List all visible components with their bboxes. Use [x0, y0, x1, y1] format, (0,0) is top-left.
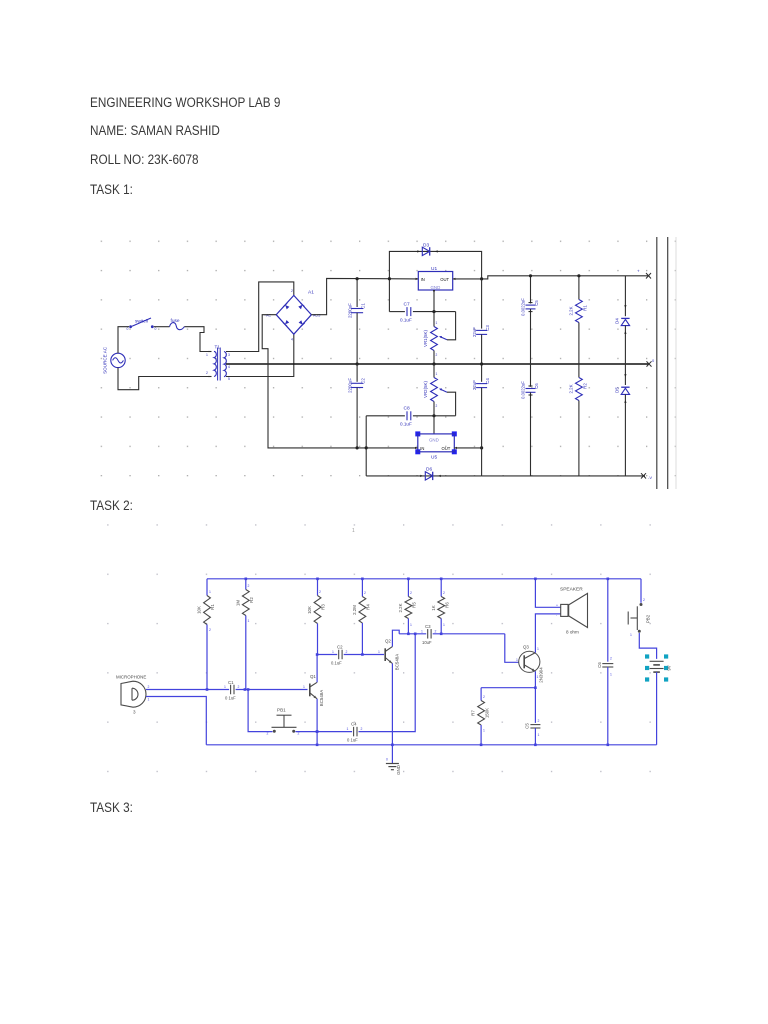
wire U1 OUT to +V rail — [453, 276, 649, 279]
bridge rectifier A1 — [276, 295, 311, 334]
svg-text:0 1uF: 0 1uF — [225, 696, 236, 701]
svg-text:2: 2 — [610, 657, 612, 661]
svg-text:2200uF: 2200uF — [348, 378, 353, 393]
wire bridge plus to U1 IN — [311, 278, 418, 314]
svg-text:150K: 150K — [485, 708, 490, 718]
microphone MIC1 — [121, 681, 146, 707]
svg-text:0: 0 — [386, 758, 388, 762]
svg-text:switch: switch — [135, 319, 149, 325]
wire battery to bottom rail — [656, 672, 658, 745]
svg-text:8 ohm: 8 ohm — [566, 630, 579, 635]
terminal 0V — [647, 361, 652, 366]
svg-text:2: 2 — [267, 732, 269, 736]
svg-text:GND: GND — [431, 285, 441, 290]
svg-text:R4: R4 — [366, 604, 371, 610]
wire mic top to C1 and Q1 base — [146, 689, 229, 691]
svg-text:2: 2 — [538, 719, 540, 723]
svg-text:22uF: 22uF — [472, 380, 477, 390]
svg-text:+: + — [556, 604, 558, 608]
bottom rail — [206, 744, 656, 746]
wire Q3 emitter with C5 — [534, 671, 536, 723]
svg-text:1: 1 — [421, 630, 423, 634]
wire mic bottom to ground rail — [146, 697, 206, 745]
svg-text:10uF: 10uF — [422, 640, 432, 645]
svg-text:1: 1 — [206, 353, 208, 357]
svg-text:1: 1 — [516, 658, 518, 662]
svg-text:2: 2 — [248, 584, 250, 588]
svg-text:R3: R3 — [321, 604, 326, 610]
column C3 C4 — [481, 279, 483, 329]
resistor R1 2.2K — [578, 276, 580, 300]
svg-text:D5: D5 — [615, 387, 620, 393]
wire Q2 collector jog to node — [392, 630, 399, 646]
svg-text:C6: C6 — [597, 662, 602, 668]
diode D3 branch over U1 — [389, 251, 481, 311]
capacitor C8 0.1uF branch — [366, 415, 405, 417]
diode D5 column — [624, 364, 626, 385]
wire fuse to transformer primary — [185, 327, 209, 352]
svg-text:fuse: fuse — [171, 318, 180, 324]
grid dots circuit 1 (decorative) — [96, 229, 692, 491]
svg-text:0.0022uF: 0.0022uF — [521, 381, 526, 399]
capacitor C2 0.1uF — [338, 650, 340, 660]
svg-text:2.2M: 2.2M — [352, 605, 357, 615]
capacitor C2 2200uF — [356, 364, 358, 382]
svg-text:MICROPHONE: MICROPHONE — [116, 675, 146, 680]
svg-text:2: 2 — [206, 371, 208, 375]
svg-text:3: 3 — [133, 710, 136, 715]
svg-text:VR2(5K): VR2(5K) — [423, 381, 428, 398]
wire transformer primary return to source — [118, 368, 208, 390]
svg-text:1: 1 — [537, 675, 539, 679]
svg-text:GND: GND — [429, 438, 439, 443]
capacitor C1 2200uF — [356, 279, 358, 307]
svg-text:+: + — [637, 269, 640, 274]
svg-text:C7: C7 — [404, 302, 410, 308]
svg-text:PB2: PB2 — [646, 614, 651, 623]
svg-text:-V: -V — [648, 475, 652, 480]
svg-text:C4: C4 — [485, 378, 490, 384]
svg-text:R2: R2 — [249, 597, 254, 603]
svg-text:SOURCE AC: SOURCE AC — [103, 346, 108, 374]
svg-text:2: 2 — [483, 695, 485, 699]
svg-text:C2: C2 — [361, 378, 366, 384]
op-amp regulator U1 — [418, 272, 452, 291]
diode D6 branch — [366, 475, 481, 477]
diode D3 — [422, 247, 429, 255]
wire Q2 emitter down — [391, 664, 393, 745]
wire C4 up to feedback node — [359, 634, 416, 732]
svg-text:C5: C5 — [525, 723, 530, 729]
battery V1 9V selected — [645, 654, 649, 658]
svg-text:2: 2 — [436, 404, 438, 408]
svg-text:OUT: OUT — [442, 446, 451, 451]
ground symbol — [391, 745, 393, 764]
svg-text:0.1uF: 0.1uF — [331, 661, 342, 666]
terminal +V — [646, 273, 651, 279]
wire PB2 to battery — [639, 633, 656, 659]
potentiometer VR2 5K — [433, 364, 435, 378]
svg-text:1: 1 — [630, 633, 632, 637]
svg-text:1: 1 — [303, 685, 305, 689]
svg-text:AUS: AUS — [313, 314, 321, 318]
svg-text:4: 4 — [228, 365, 230, 369]
svg-text:10K: 10K — [307, 606, 312, 614]
svg-text:BC548A: BC548A — [319, 690, 324, 706]
svg-text:0.1uF: 0.1uF — [400, 422, 412, 427]
svg-text:0 1uF: 0 1uF — [347, 738, 358, 743]
svg-text:D3: D3 — [423, 243, 429, 249]
svg-text:2.2K: 2.2K — [569, 306, 574, 315]
svg-text:1: 1 — [538, 733, 540, 737]
svg-text:Q1: Q1 — [310, 674, 316, 679]
grid dots circuit 2 (decorative) — [96, 522, 692, 790]
wire C2 node — [317, 654, 337, 656]
wire node 633.8 to Q3 base — [399, 633, 426, 635]
diode D6 — [425, 472, 432, 480]
svg-text:-: - — [556, 614, 557, 618]
speaker LS1 — [561, 604, 568, 616]
svg-text:1: 1 — [352, 528, 355, 534]
wire Q1 emitter down — [316, 699, 318, 745]
capacitor C3 10uF — [427, 629, 429, 639]
wire bridge minus to U5 IN — [262, 315, 418, 448]
svg-text:2: 2 — [364, 591, 366, 595]
svg-text:1: 1 — [537, 647, 539, 651]
svg-text:1: 1 — [610, 673, 612, 677]
svg-text:R5: R5 — [412, 602, 417, 608]
svg-text:VR1(5K): VR1(5K) — [423, 330, 428, 347]
svg-text:IN: IN — [421, 277, 425, 282]
svg-text:2200uF: 2200uF — [348, 303, 353, 318]
svg-text:0: 0 — [127, 327, 129, 331]
svg-text:3: 3 — [228, 353, 230, 357]
svg-text:BC548A: BC548A — [394, 654, 399, 670]
capacitor C6 column — [530, 364, 532, 387]
svg-text:1: 1 — [410, 623, 412, 627]
svg-text:2: 2 — [319, 590, 321, 594]
svg-text:D4: D4 — [615, 318, 620, 324]
capacitor C4 0.1uF — [353, 727, 355, 737]
top supply rail — [207, 578, 641, 580]
wire speaker bottom to Q3 collector — [535, 614, 560, 653]
svg-text:Q3: Q3 — [523, 645, 529, 650]
svg-text:C5: C5 — [534, 300, 539, 306]
resistor R3 10K — [317, 579, 319, 596]
diode D4 column — [624, 276, 626, 316]
terminal -V — [641, 473, 646, 478]
transistor Q3 2N3904 — [519, 651, 540, 672]
AC source V1 — [111, 353, 125, 367]
svg-text:2: 2 — [436, 353, 438, 357]
switch S1 — [129, 325, 132, 328]
svg-text:R1: R1 — [210, 604, 215, 610]
svg-text:2: 2 — [291, 289, 293, 293]
svg-text:A1: A1 — [308, 290, 314, 296]
svg-text:1: 1 — [332, 650, 334, 654]
wire secondary bottom to bridge AC2 — [226, 334, 294, 376]
svg-text:5: 5 — [228, 377, 230, 381]
fuse F1 — [170, 323, 185, 330]
pushbutton PB1 — [273, 730, 276, 733]
resistor R7 150K branch — [481, 687, 535, 689]
svg-text:C4: C4 — [351, 722, 357, 727]
svg-text:1: 1 — [443, 623, 445, 627]
svg-text:R1: R1 — [583, 305, 588, 311]
mid rail 0V from center tap — [226, 363, 649, 365]
svg-text:1: 1 — [209, 590, 211, 594]
svg-text:C6: C6 — [534, 383, 539, 389]
svg-text:R2: R2 — [583, 383, 588, 389]
svg-text:C1: C1 — [361, 303, 366, 309]
svg-text:2: 2 — [443, 591, 445, 595]
svg-text:1: 1 — [248, 619, 250, 623]
transformer T1 — [214, 351, 216, 376]
capacitor C7 0.1uF branch — [389, 311, 405, 313]
svg-text:Q2: Q2 — [385, 639, 391, 644]
svg-text:1: 1 — [378, 650, 380, 654]
svg-text:2: 2 — [643, 598, 645, 602]
svg-text:22uF: 22uF — [472, 327, 477, 337]
svg-text:R6: R6 — [445, 602, 450, 608]
svg-text:C2: C2 — [337, 645, 343, 650]
svg-text:~AC: ~AC — [264, 314, 271, 318]
resistor R2 2.2K — [578, 364, 580, 378]
wire switch to fuse — [154, 326, 170, 328]
wire speaker top — [535, 579, 560, 608]
sheet border line — [675, 237, 677, 489]
svg-text:U5: U5 — [431, 455, 437, 461]
svg-text:1: 1 — [224, 685, 226, 689]
wire secondary top to bridge AC1 — [226, 282, 294, 352]
svg-text:1: 1 — [436, 321, 438, 325]
svg-text:C3: C3 — [425, 624, 431, 629]
wire U1 GND down — [433, 290, 435, 312]
wire to pushbutton PB1 — [248, 690, 272, 732]
svg-text:C1: C1 — [228, 680, 234, 685]
svg-text:2N3904: 2N3904 — [538, 667, 543, 683]
svg-text:OUT: OUT — [440, 277, 449, 282]
-V rail — [482, 475, 645, 477]
svg-text:PB1: PB1 — [277, 708, 286, 713]
wire source to switch — [118, 327, 129, 354]
svg-text:1K: 1K — [431, 605, 436, 610]
capacitor C5 column — [530, 276, 532, 304]
svg-text:0.0022uF: 0.0022uF — [521, 298, 526, 316]
regulator U5 selected — [433, 416, 435, 434]
svg-text:SPEAKER: SPEAKER — [560, 587, 583, 593]
resistor R2 1M — [245, 579, 247, 590]
wire C8 node to -V rail — [365, 416, 367, 476]
svg-text:0.1uF: 0.1uF — [400, 318, 412, 323]
svg-text:C3: C3 — [485, 325, 490, 331]
svg-text:1M: 1M — [236, 600, 241, 606]
wire U5 OUT — [454, 447, 481, 449]
svg-text:IN: IN — [420, 446, 424, 451]
svg-text:2: 2 — [410, 591, 412, 595]
svg-text:U1: U1 — [431, 266, 437, 272]
svg-text:1: 1 — [347, 727, 349, 731]
svg-text:2: 2 — [435, 630, 437, 634]
svg-text:GND: GND — [396, 765, 401, 775]
wire PB1 to C4 — [296, 731, 353, 733]
svg-text:0: 0 — [155, 327, 157, 331]
resistor R5 2.2K — [407, 579, 409, 597]
resistor R4 2.2M — [361, 579, 363, 597]
svg-text:2: 2 — [148, 685, 150, 689]
pushbutton PB2 — [640, 603, 643, 606]
wire rail to PB2 — [640, 579, 642, 603]
svg-text:1: 1 — [148, 698, 150, 702]
svg-text:2: 2 — [361, 727, 363, 731]
svg-text:10K: 10K — [197, 606, 202, 614]
svg-text:D6: D6 — [426, 467, 432, 473]
svg-text:R7: R7 — [471, 710, 476, 716]
svg-text:2: 2 — [346, 650, 348, 654]
transistor Q1 BC548A — [309, 684, 311, 697]
svg-text:T1: T1 — [215, 345, 221, 350]
svg-text:2: 2 — [209, 628, 211, 632]
potentiometer VR1 5K — [433, 312, 435, 327]
svg-text:2.2K: 2.2K — [569, 384, 574, 393]
svg-text:1: 1 — [483, 729, 485, 733]
svg-text:9V: 9V — [667, 665, 672, 670]
svg-text:C8: C8 — [404, 406, 410, 412]
connector double line — [656, 237, 658, 489]
resistor R1 10K — [206, 579, 208, 596]
svg-text:4: 4 — [291, 338, 293, 342]
svg-text:2: 2 — [238, 685, 240, 689]
wire Q1 collector to R3 node — [316, 655, 318, 683]
svg-text:2.2K: 2.2K — [398, 603, 403, 612]
capacitor C6 column — [607, 579, 609, 662]
transistor Q2 BC548A — [384, 648, 386, 661]
resistor R6 1K — [440, 579, 442, 597]
capacitor C1 0.1uF — [230, 685, 232, 695]
svg-text:1: 1 — [436, 372, 438, 376]
